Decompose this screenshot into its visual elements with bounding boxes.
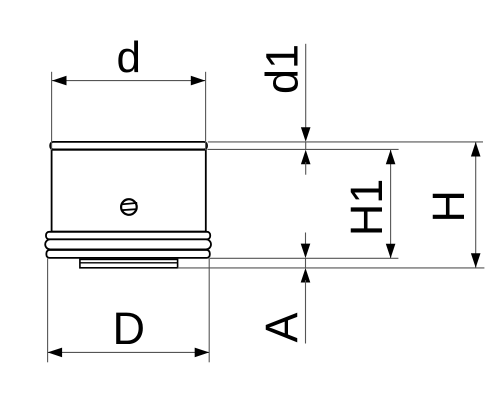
screw slot upper line <box>121 203 137 205</box>
arrow D right <box>195 348 210 358</box>
extension line D right <box>208 258 210 362</box>
arrow A down <box>301 244 311 259</box>
dimension A lower tail <box>305 280 307 344</box>
bottom insert divider <box>80 262 178 264</box>
svg-text:A: A <box>256 312 307 342</box>
extension line ring bottom (to H1) <box>210 257 398 259</box>
arrow d1 down <box>301 127 311 142</box>
arrow H up <box>471 142 481 157</box>
extension line cap bottom (to H1) <box>208 148 399 150</box>
dimension A upper line <box>305 233 307 247</box>
arrow H1 down <box>386 244 396 259</box>
arrow d1 up <box>301 150 311 165</box>
arrow H down <box>471 253 481 267</box>
arrow D left <box>48 348 63 358</box>
svg-text:d1: d1 <box>257 44 308 94</box>
extension line d right <box>205 72 207 150</box>
dimension line D <box>48 351 210 353</box>
svg-text:H1: H1 <box>341 179 392 237</box>
dimension line H <box>475 142 477 268</box>
arrow H1 up <box>386 150 396 165</box>
dimension line H1 <box>390 150 392 258</box>
arrow A up <box>301 268 311 283</box>
bottom insert <box>80 259 178 267</box>
dimension A through segment <box>305 258 307 268</box>
body <box>52 150 206 232</box>
ring 2 <box>45 239 211 249</box>
svg-text:d: d <box>116 33 140 82</box>
dimension d1 upper line <box>305 44 307 130</box>
arrow d right <box>191 76 206 86</box>
extension line D left <box>47 258 49 362</box>
dimension d1 through segment <box>305 142 307 150</box>
ring 3 <box>46 250 209 258</box>
svg-text:D: D <box>113 303 146 354</box>
screw slot lower line <box>121 209 137 210</box>
arrow d left <box>52 76 67 86</box>
extension line top (cap top, to H) <box>208 141 483 143</box>
dimension d1 lower tail <box>305 162 307 175</box>
svg-text:H: H <box>423 190 474 223</box>
ring 1 <box>46 232 210 240</box>
screw head <box>121 199 137 215</box>
top cap <box>50 142 207 150</box>
extension line part bottom (to H) <box>178 267 485 269</box>
dimension line d <box>52 80 205 82</box>
extension line d left <box>51 72 53 150</box>
